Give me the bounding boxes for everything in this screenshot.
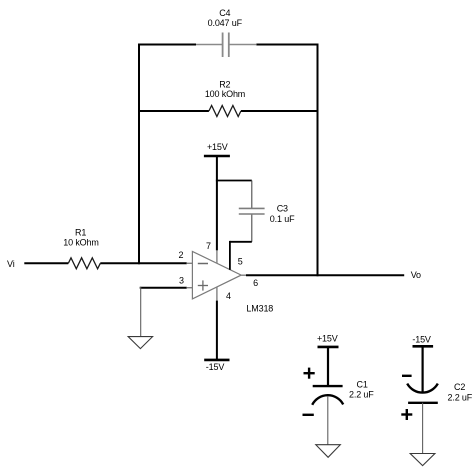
ground at pin 3 — [128, 337, 152, 349]
svg-text:C1: C1 — [357, 380, 368, 390]
svg-text:C2: C2 — [454, 382, 465, 392]
svg-text:6: 6 — [253, 278, 258, 288]
wire output to Vo — [246, 274, 404, 276]
capacitor C4 — [196, 33, 256, 58]
svg-text:+15V: +15V — [207, 142, 228, 152]
svg-text:100 kOhm: 100 kOhm — [205, 89, 245, 99]
svg-text:+15V: +15V — [317, 333, 338, 343]
wire ground stem at pin 3 — [140, 287, 142, 337]
wire input from Vi — [24, 262, 68, 264]
ground at C1 — [316, 445, 341, 458]
wire R2 left segment — [138, 110, 209, 112]
wire -15V bar to C2 curved plate — [422, 346, 424, 392]
svg-text:2.2 uF: 2.2 uF — [448, 392, 473, 402]
pin 2 lead — [187, 262, 193, 264]
capacitor C2 minus sign — [402, 375, 412, 377]
power +15V bar at C1 — [318, 346, 339, 349]
wire C3 bottom horizontal — [230, 241, 252, 243]
wire right vertical feedback — [317, 44, 319, 277]
capacitor C1 curved plate — [312, 395, 343, 405]
pin 6 output lead — [241, 274, 246, 276]
wire C1 to ground — [327, 396, 329, 445]
svg-text:-15V: -15V — [412, 334, 431, 344]
svg-text:0.047 uF: 0.047 uF — [208, 18, 243, 28]
capacitor C2 plus sign — [401, 409, 412, 420]
resistor R2 — [209, 106, 241, 117]
svg-text:3: 3 — [179, 276, 184, 286]
svg-text:R2: R2 — [219, 79, 230, 89]
wire left vertical feedback — [138, 44, 140, 265]
power +15V bar at op-amp — [204, 155, 230, 158]
op-amp U1 LM318 triangle — [192, 251, 241, 299]
svg-text:2: 2 — [178, 250, 183, 260]
wire +15V bar to C1 plate — [327, 347, 329, 386]
svg-text:Vi: Vi — [7, 259, 15, 269]
wire top feedback C4 left segment — [138, 44, 196, 46]
capacitor C1 minus sign — [303, 414, 314, 416]
wire pin 3 horizontal — [140, 287, 187, 289]
svg-text:R1: R1 — [75, 228, 86, 238]
wire branch to C3 — [216, 180, 252, 182]
pin 7 lead — [216, 250, 218, 263]
wire C2 to ground — [422, 403, 424, 454]
wire pin 4 to -15V — [216, 301, 218, 360]
capacitor C1 straight plate — [313, 385, 343, 387]
op-amp minus symbol — [198, 263, 208, 265]
power -15V bar at op-amp — [204, 359, 229, 362]
wire top feedback C4 right segment — [256, 44, 318, 46]
capacitor C1 plus sign — [304, 368, 315, 379]
wire R1 to pin 2 — [100, 262, 186, 264]
svg-text:7: 7 — [206, 241, 211, 251]
pin 3 lead — [187, 287, 193, 289]
svg-text:C3: C3 — [277, 204, 288, 214]
pin 4 lead — [216, 287, 218, 301]
capacitor C2 straight plate — [408, 402, 438, 404]
wire R2 right segment — [241, 110, 319, 112]
ground at C2 — [410, 454, 435, 466]
capacitor C3 plates — [239, 208, 265, 214]
svg-text:C4: C4 — [219, 8, 230, 18]
svg-text:5: 5 — [238, 257, 243, 267]
capacitor C2 curved plate — [407, 384, 438, 393]
wire +15V to pin 7 — [216, 156, 218, 250]
svg-text:4: 4 — [226, 291, 231, 301]
svg-text:LM318: LM318 — [246, 304, 273, 314]
svg-text:0.1 uF: 0.1 uF — [270, 214, 295, 224]
svg-text:-15V: -15V — [206, 362, 225, 372]
svg-text:10 kOhm: 10 kOhm — [63, 238, 98, 248]
resistor R1 — [68, 258, 100, 269]
capacitor C3 leads — [251, 181, 253, 242]
svg-text:Vo: Vo — [411, 270, 421, 280]
wire down to pin 5 — [229, 241, 231, 270]
power -15V bar at C2 — [413, 345, 434, 348]
op-amp plus symbol — [198, 280, 208, 290]
svg-text:2.2 uF: 2.2 uF — [349, 390, 374, 400]
